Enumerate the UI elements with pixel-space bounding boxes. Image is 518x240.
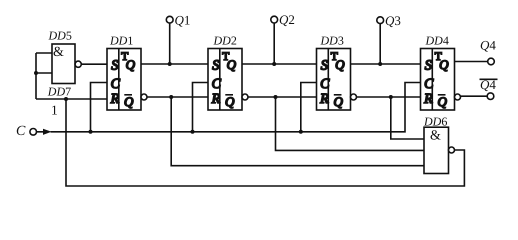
svg-text:Q4: Q4 (480, 38, 496, 53)
svg-text:Q2: Q2 (279, 12, 295, 27)
svg-text:DD5: DD5 (48, 28, 72, 42)
svg-text:C: C (16, 124, 26, 139)
svg-text:&: & (53, 45, 64, 60)
svg-text:Q3: Q3 (385, 13, 401, 28)
svg-text:DD4: DD4 (425, 34, 449, 48)
svg-text:Q4: Q4 (480, 77, 496, 92)
svg-text:DD1: DD1 (109, 34, 133, 48)
svg-text:1: 1 (51, 102, 58, 117)
svg-text:DD6: DD6 (423, 115, 447, 129)
svg-text:DD2: DD2 (213, 34, 237, 48)
svg-text:Q1: Q1 (175, 12, 191, 27)
svg-text:DD7: DD7 (47, 85, 71, 99)
svg-text:DD3: DD3 (320, 34, 344, 48)
svg-text:&: & (430, 129, 441, 144)
